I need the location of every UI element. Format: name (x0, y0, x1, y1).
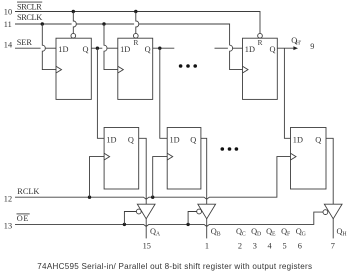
svg-text:74AHC595 Serial-in/ Parallel o: 74AHC595 Serial-in/ Parallel out 8-bit s… (37, 262, 312, 271)
svg-text:Q: Q (315, 135, 321, 144)
svg-text:SER: SER (17, 38, 33, 47)
svg-text:D: D (257, 232, 261, 238)
svg-text:6: 6 (298, 241, 302, 250)
svg-text:E: E (272, 232, 276, 238)
svg-text:R: R (258, 38, 263, 47)
svg-text:5: 5 (283, 241, 287, 250)
svg-text:9: 9 (310, 42, 314, 51)
svg-text:RCLK: RCLK (17, 187, 39, 196)
svg-text:3: 3 (253, 241, 257, 250)
svg-text:1D: 1D (58, 45, 68, 54)
svg-text:Q: Q (190, 135, 196, 144)
svg-text:13: 13 (4, 222, 12, 231)
svg-text:SRCLR: SRCLR (17, 2, 42, 11)
svg-text:SRCLK: SRCLK (17, 13, 42, 22)
svg-text:Q: Q (128, 135, 134, 144)
svg-text:Q: Q (145, 45, 151, 54)
svg-text:H′: H′ (296, 41, 301, 47)
svg-text:1D: 1D (293, 135, 303, 144)
svg-text:1D: 1D (106, 135, 116, 144)
svg-text:1D: 1D (120, 45, 130, 54)
svg-text:OE: OE (17, 214, 29, 223)
svg-text:1D: 1D (170, 135, 180, 144)
svg-text:12: 12 (4, 195, 12, 204)
svg-text:2: 2 (238, 241, 242, 250)
svg-text:15: 15 (143, 241, 151, 250)
svg-text:11: 11 (4, 20, 12, 29)
svg-text:R: R (133, 38, 138, 47)
svg-text:G: G (302, 232, 306, 238)
svg-text:Q: Q (83, 45, 89, 54)
svg-text:Q: Q (270, 45, 276, 54)
svg-text:1D: 1D (245, 45, 255, 54)
svg-text:B: B (217, 232, 221, 238)
svg-text:7: 7 (331, 241, 335, 250)
svg-text:C: C (242, 232, 246, 238)
svg-text:14: 14 (4, 40, 13, 49)
svg-text:1: 1 (205, 241, 209, 250)
svg-text:10: 10 (4, 8, 12, 17)
